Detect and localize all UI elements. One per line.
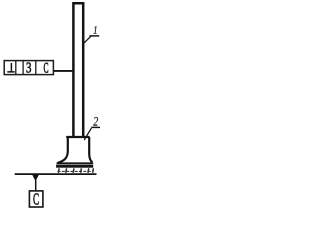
support ticks under flange <box>58 168 93 173</box>
label 2 underline <box>91 126 100 128</box>
label 1 text <box>93 26 96 34</box>
surface plate line <box>15 173 97 175</box>
label 1 underline <box>90 35 100 37</box>
frame divider 2 <box>22 60 24 75</box>
datum leader <box>35 180 37 191</box>
tolerance value 3 <box>27 63 32 73</box>
perpendicularity symbol <box>7 63 14 72</box>
pedestal top edge (item 2) <box>66 136 89 138</box>
feature control frame box <box>4 61 53 75</box>
pedestal left side with flare <box>58 137 68 163</box>
datum box <box>29 191 43 207</box>
flange shoulder line <box>57 162 94 164</box>
leader line to label 1 <box>84 36 91 43</box>
datum letter C <box>33 194 38 205</box>
label 2 text <box>93 117 98 126</box>
leader from frame to rod <box>54 70 72 72</box>
flange bottom band <box>56 165 93 168</box>
gauge rod (item 1) <box>73 3 83 137</box>
frame divider 3 <box>35 60 37 75</box>
leader line to label 2 <box>84 128 91 140</box>
datum triangle <box>32 174 40 182</box>
faint seat line under flange <box>58 170 93 172</box>
frame divider 1 <box>15 60 17 75</box>
datum letter C in frame <box>44 63 48 73</box>
pedestal right side with flare <box>89 137 92 162</box>
